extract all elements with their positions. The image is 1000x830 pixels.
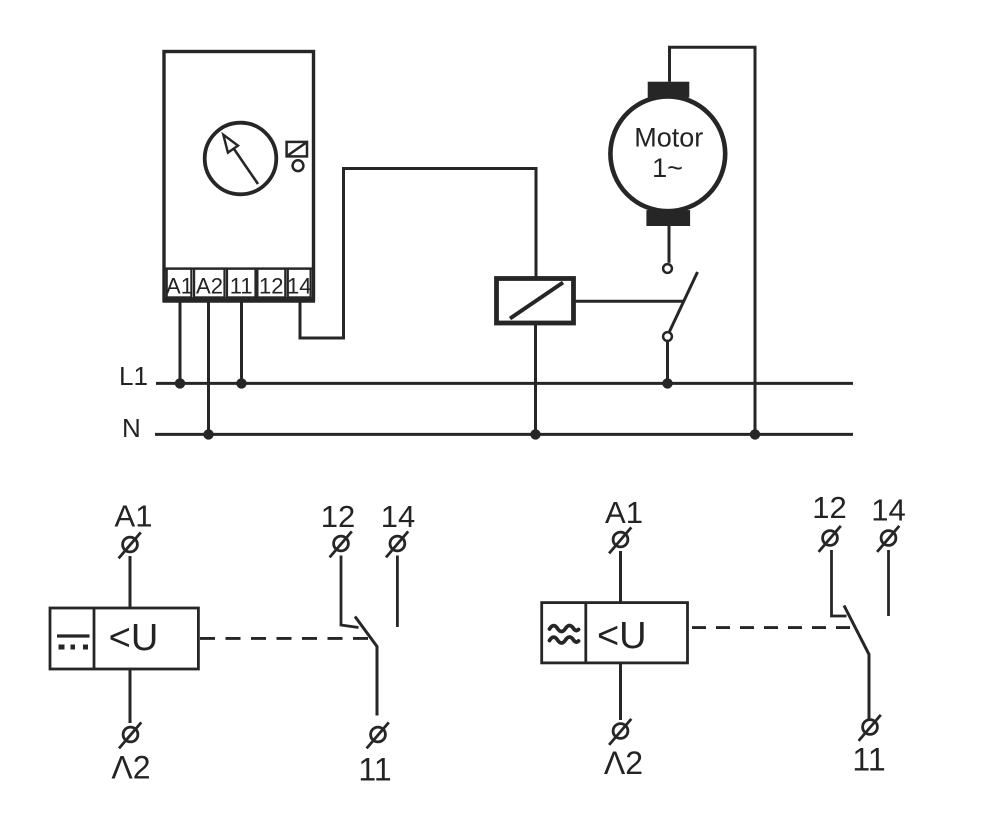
junction dot 11-L1 [236, 378, 246, 388]
terminal strip top line [164, 267, 314, 269]
svg-text:Λ2: Λ2 [111, 750, 150, 786]
motor M1 [610, 82, 725, 226]
svg-text:14: 14 [287, 274, 311, 299]
terminal A2 (right) [609, 719, 631, 745]
svg-text:14: 14 [381, 499, 415, 534]
svg-text:Λ2: Λ2 [604, 745, 643, 781]
svg-text:A1: A1 [166, 274, 193, 299]
svg-text:11: 11 [852, 742, 885, 778]
terminal 12 cell [257, 269, 285, 299]
DC symbol [57, 636, 90, 647]
wire 11 to L1 [240, 303, 243, 384]
svg-text:14: 14 [871, 493, 905, 528]
terminal A1 cell [166, 269, 193, 299]
svg-text:11: 11 [358, 752, 391, 788]
terminal A2 cell [194, 269, 224, 299]
junction dot A1-L1 [175, 378, 185, 388]
svg-text:A2: A2 [196, 274, 223, 299]
svg-text:12: 12 [259, 274, 283, 299]
terminal A1 (right) [609, 527, 631, 553]
terminal 14 (left) [386, 531, 408, 557]
terminal 11 cell [227, 269, 256, 299]
wire 12 down (left contact fixed side) [341, 556, 359, 628]
time relay device box K1 [164, 52, 314, 301]
switch S1 (NO contact) [663, 264, 697, 341]
dashed actuation link (left) [200, 637, 373, 640]
dial (timer knob) [205, 123, 277, 195]
wire coil to switch blade [576, 300, 685, 303]
wire box to A2 (left) [129, 669, 132, 723]
N bus line [155, 433, 853, 436]
junction dot switch-L1 [662, 378, 672, 388]
wire switch to L1 [666, 341, 669, 383]
wire from terminal 14 to relay coil [300, 169, 536, 339]
svg-text:A1: A1 [115, 499, 153, 534]
terminal A2 (left) [119, 722, 141, 748]
svg-text:<U: <U [109, 617, 159, 659]
wire A1 to L1 [179, 303, 182, 384]
L1 bus line [156, 382, 853, 385]
terminal 12 (left) [330, 531, 352, 557]
wire motor top to right bus [670, 47, 756, 434]
relay coil K [497, 279, 574, 324]
contact/flag icon [287, 142, 307, 171]
terminal 14 (right) [877, 526, 899, 552]
svg-text:12: 12 [812, 490, 846, 525]
terminal 12 (right) [819, 526, 841, 552]
contact blade (left) [355, 617, 377, 716]
svg-text:11: 11 [230, 274, 253, 299]
undervoltage relay box (AC) [542, 603, 688, 663]
wire coil bottom to N [534, 322, 537, 434]
junction dot motor-N [750, 429, 760, 439]
terminal 14 cell [287, 269, 311, 299]
device bottom thick bar [163, 297, 316, 303]
svg-text:A1: A1 [605, 495, 643, 530]
wire A1 to relay box (left) [129, 556, 132, 608]
contact blade (right) [844, 606, 869, 719]
wire 12 down (right contact fixed side) [832, 550, 847, 616]
AC symbol [550, 626, 579, 644]
svg-text:1~: 1~ [652, 153, 683, 183]
wire 14 down (left, open) [396, 556, 399, 628]
terminal A1 (left) [119, 532, 141, 558]
svg-text:L1: L1 [119, 361, 148, 391]
svg-text:Motor: Motor [634, 123, 703, 153]
wire 14 down (right, open) [887, 550, 890, 616]
svg-text:N: N [122, 413, 141, 443]
wire A2 to N [207, 303, 210, 435]
undervoltage relay box (DC) [50, 608, 198, 669]
junction dot A2-N [203, 429, 213, 439]
svg-text:12: 12 [321, 499, 355, 534]
dashed actuation link (right) [692, 626, 853, 629]
terminal 11 (right) [859, 715, 881, 741]
junction dot coil-N [530, 429, 540, 439]
wire box to A2 (right) [619, 663, 622, 720]
svg-text:<U: <U [597, 615, 647, 657]
terminal 11 (left) [367, 722, 389, 748]
wire motor bottom to switch [668, 226, 671, 263]
wire A1 to relay box (right) [619, 551, 622, 603]
